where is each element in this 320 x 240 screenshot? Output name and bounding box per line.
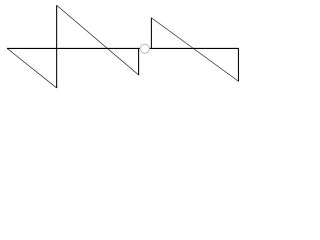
node A: connection bubble xyxy=(140,44,149,53)
wire: left main diagonal segment xyxy=(57,5,139,75)
wire: right main diagonal segment xyxy=(151,18,238,81)
wire: right upper vertical segment xyxy=(150,18,152,49)
wire: left tall vertical segment xyxy=(56,5,58,88)
wire: middle short vertical segment xyxy=(138,48,140,75)
wire: far-right vertical segment xyxy=(237,48,239,81)
wire: main horizontal net line xyxy=(7,47,239,49)
wire: left lower diagonal segment xyxy=(7,48,57,88)
